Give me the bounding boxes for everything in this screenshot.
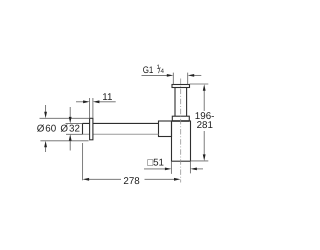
trap body cup: [172, 121, 191, 161]
arrow left at G1 right ext: [188, 74, 195, 77]
flange nut at top of inlet pipe: [172, 85, 190, 88]
svg-text:32: 32: [69, 124, 80, 135]
dimension sq51: extension lines: [171, 162, 190, 174]
dimension D60: extension lines: [40, 118, 90, 141]
vertical inlet pipe: [175, 88, 187, 116]
dimension 278: line left segment: [88, 178, 121, 180]
dimension 11: extension lines: [90, 98, 93, 118]
svg-text:11: 11: [102, 92, 112, 103]
arrow right at sq51 left ext: [165, 168, 172, 171]
arrow left at sq51 right ext: [190, 168, 197, 171]
svg-text:281: 281: [197, 120, 213, 131]
arrow down D60 top: [44, 112, 47, 119]
dimension 278: line right segment: [145, 178, 176, 180]
dimension 11: left leader: [76, 101, 84, 103]
dimension G1 1/4: extension lines: [173, 73, 187, 85]
arrow left at 278 wall end: [83, 178, 90, 181]
wall escutcheon: [90, 118, 93, 140]
dimension G1 1/4: leader right: [193, 74, 201, 76]
centerline (vertical axis): [180, 79, 182, 183]
arrow left at 11 right ext: [93, 100, 100, 103]
dimension sq51: right leader: [196, 168, 203, 170]
pipe wall-end cap: [82, 123, 84, 134]
svg-text:□51: □51: [147, 158, 164, 169]
dimension G1 1/4: leader left: [142, 74, 169, 76]
dimension D32: extension lines: [66, 123, 83, 134]
union nut ring on body top: [172, 116, 189, 121]
dimension 11: right leader: [99, 101, 116, 103]
horizontal outlet pipe top line: [83, 122, 159, 124]
svg-text:G1: G1: [143, 65, 154, 76]
dimension 278: wall extension line: [82, 143, 84, 180]
svg-text:Ø: Ø: [37, 124, 45, 135]
dimension 196-281: vertical segments: [203, 91, 205, 155]
arrow up 196-281 top: [203, 84, 206, 91]
arrow right at 11 left ext: [83, 100, 90, 103]
arrow down D32 top: [69, 117, 72, 124]
dimension 196-281: extension lines: [190, 84, 209, 161]
svg-text:Ø: Ø: [60, 124, 68, 135]
horizontal outlet pipe bottom line: [83, 133, 159, 135]
dimension D60: vertical segments: [45, 105, 47, 152]
outlet connector nut: [159, 121, 172, 137]
arrow right at 278 axis end: [174, 178, 181, 181]
svg-text:60: 60: [45, 124, 56, 135]
arrow right at G1 left ext: [167, 74, 174, 77]
arrow down 196-281 bottom: [203, 154, 206, 161]
union nut bottom edge emphasized: [172, 120, 189, 122]
dimension sq51: left leader: [144, 168, 166, 170]
svg-text:4: 4: [161, 68, 165, 75]
dimension D32: vertical segments: [69, 107, 71, 151]
svg-text:278: 278: [123, 176, 140, 187]
arrow up D60 bottom: [44, 141, 47, 148]
arrow up D32 bottom: [69, 134, 72, 141]
